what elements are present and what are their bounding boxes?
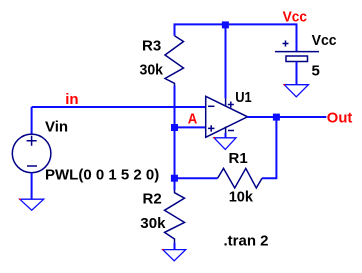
wire op-amp V- to ground [225, 133, 227, 138]
wire op-amp output [248, 116, 327, 118]
svg-text:R2: R2 [143, 191, 162, 208]
svg-text:5: 5 [312, 63, 320, 80]
svg-text:10k: 10k [229, 189, 254, 206]
resistor R3 [165, 36, 184, 86]
node junction top rail [222, 21, 229, 28]
svg-text:Vin: Vin [45, 119, 68, 136]
resistor R2 [165, 190, 185, 243]
wire battery bottom to ground [296, 62, 298, 85]
svg-text:PWL(0 0 1 5 2 0): PWL(0 0 1 5 2 0) [45, 167, 159, 184]
voltage source Vcc (battery) [275, 41, 319, 62]
svg-text:Vcc: Vcc [312, 32, 337, 49]
wire Vin bottom lead [31, 173, 33, 200]
ground (Vcc) [284, 85, 308, 97]
wire node A to op-amp non-inverting input [175, 126, 206, 128]
wire R2 bottom to ground [174, 243, 176, 250]
wire feedback: output down and left to R1 [262, 117, 276, 178]
voltage source Vin [12, 134, 51, 173]
ground (op-amp V-) [214, 138, 236, 150]
svg-text:Out: Out [327, 109, 353, 126]
wire Vin top lead [31, 107, 33, 135]
node A junction [171, 124, 178, 131]
node Out junction [273, 114, 280, 121]
svg-text:R1: R1 [229, 150, 248, 167]
svg-text:.tran 2: .tran 2 [224, 233, 269, 250]
svg-text:in: in [65, 91, 78, 108]
ground (R2) [163, 250, 186, 261]
op-amp U1 [206, 96, 248, 137]
svg-text:R3: R3 [142, 38, 161, 55]
wire node in: horizontal from Vin to op-amp inverting input [32, 106, 206, 108]
wire vertical R3 bottom to R2 top [174, 86, 176, 191]
svg-text:A: A [188, 111, 198, 128]
svg-text:30k: 30k [140, 62, 164, 79]
resistor R1 [218, 168, 262, 188]
wire top rail Vcc [175, 24, 297, 51]
svg-text:30k: 30k [140, 215, 166, 232]
wire op-amp V+ supply [225, 24, 227, 98]
svg-text:Vcc: Vcc [283, 9, 308, 26]
ground (Vin) [20, 199, 44, 210]
wire node A junction 2 to R1 left [171, 175, 178, 182]
svg-text:U1: U1 [235, 89, 252, 106]
